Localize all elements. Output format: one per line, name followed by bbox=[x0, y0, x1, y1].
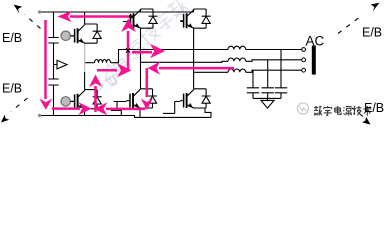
svg-text:AC: AC bbox=[306, 34, 325, 49]
svg-text:E/B: E/B bbox=[364, 101, 384, 115]
svg-text:E/B: E/B bbox=[2, 82, 22, 96]
svg-text:E/B: E/B bbox=[2, 31, 22, 45]
svg-text:E/B: E/B bbox=[362, 26, 382, 40]
